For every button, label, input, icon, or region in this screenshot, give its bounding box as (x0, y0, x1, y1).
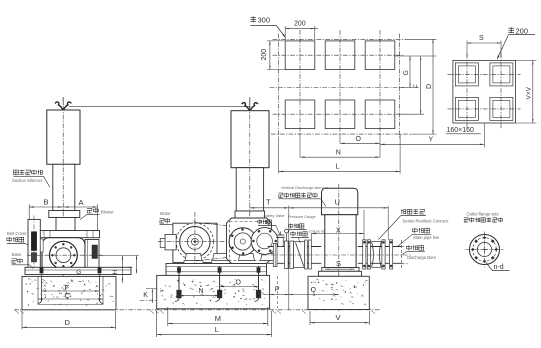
svg-text:Y: Y (429, 137, 434, 144)
svg-text:X: X (336, 225, 341, 234)
plan right extension line middle (399, 87, 413, 89)
dimension L extension lines (157, 311, 272, 337)
outlet flange bore circle (477, 242, 491, 256)
dimension line M (168, 314, 268, 324)
plan boundary bottom (dash-dot) (271, 133, 409, 135)
belt (black) (31, 232, 37, 262)
left anchor bolt 1 (38, 268, 44, 304)
dimension VxV extensions (516, 60, 537, 123)
motor stator circle (180, 227, 210, 257)
expansion joint flange A2 (367, 240, 370, 269)
small plan vertical centerlines (467, 53, 501, 129)
svg-text:M: M (215, 314, 221, 323)
plan column 2 centerline (339, 30, 341, 143)
svg-text:Belt Cover: Belt Cover (7, 231, 27, 236)
suction silencer neck (side view) (53, 164, 75, 210)
dimension line B-A (29, 206, 97, 208)
discharge silencer base (319, 271, 362, 276)
label B (44, 198, 49, 207)
svg-text:Safety Valve: Safety Valve (264, 214, 285, 218)
outlet flange centerlines (466, 232, 504, 268)
svg-text:Suction Silencer: Suction Silencer (12, 178, 43, 183)
svg-text:300: 300 (258, 16, 271, 25)
svg-text:V×V: V×V (525, 86, 532, 99)
extension line X left (310, 234, 312, 242)
svg-text:U: U (335, 197, 340, 206)
flange center mark (482, 247, 488, 253)
dimension P (264, 286, 289, 295)
svg-text:L: L (215, 325, 219, 334)
middle silencer centerline (249, 97, 251, 263)
svg-text:G: G (403, 70, 410, 75)
svg-text:S: S (336, 259, 341, 268)
label main pipe line (398, 228, 440, 247)
dimension line 200 vertical (261, 41, 270, 70)
svg-text:Base: Base (12, 252, 22, 257)
motor fan cover circle (dashed) (176, 223, 213, 260)
motor foot 1 (185, 254, 202, 261)
svg-text:200: 200 (516, 26, 529, 35)
label n-d (486, 263, 510, 272)
blower top casing (side view) (38, 218, 100, 238)
dimension line L (front view) (157, 325, 272, 335)
intake flow symbol (middle silencer) (242, 98, 258, 110)
label Suction Silencer (12, 170, 50, 187)
middle foundation block (157, 275, 270, 308)
dimension N (plan) (300, 149, 380, 158)
dimension H extension (100, 255, 140, 257)
pipe flange 3 (290, 241, 294, 269)
machines horizontal centerline (158, 241, 293, 243)
svg-text:Pressure Gauge: Pressure Gauge (288, 215, 316, 219)
plan right extension to L (399, 134, 401, 174)
motor terminal box (160, 234, 176, 250)
motor foot pads (184, 261, 231, 264)
dimension F (plan) (413, 56, 421, 114)
discharge pipe (left run) (268, 247, 322, 264)
dimension D (plan) (426, 39, 434, 134)
plan left extension to L (278, 138, 280, 174)
dimension line H (112, 256, 123, 283)
discharge silencer centerline (338, 184, 340, 311)
expansion joint flange B1 (382, 240, 385, 269)
check valve (294, 242, 305, 268)
outlet flange outer circle (470, 235, 500, 265)
right-side dimension tick (128, 256, 138, 274)
dimension line O (220, 279, 259, 287)
belt cover centerline (33, 216, 35, 272)
svg-text:S: S (479, 35, 484, 42)
svg-text:Motor: Motor (160, 211, 171, 216)
svg-text:C: C (65, 293, 70, 300)
dimension X (311, 225, 364, 234)
svg-text:Main pipe line: Main pipe line (413, 235, 440, 240)
blower left rotor bolts (231, 228, 254, 254)
pipe flange 5 (309, 240, 312, 269)
plan boundary left (dash-dot) (278, 34, 280, 139)
svg-text:F: F (413, 84, 420, 88)
dimension line D (22, 318, 116, 328)
blower horizontal centerline (side view) (27, 254, 104, 256)
dimension 200 vertical extensions (267, 41, 286, 70)
blower shaft circle (56, 248, 71, 263)
small plan horizontal centerlines (448, 74, 521, 109)
anchor pockets (6 squares) (285, 41, 395, 129)
blower bearing housing (right) (85, 240, 99, 269)
label Belt Cover (7, 231, 29, 245)
small plan outer square (453, 60, 516, 123)
dimension line 200 (285, 21, 318, 30)
small plan center extension (483, 123, 485, 148)
label outlet flange size (464, 211, 503, 222)
outlet flange bolt holes (cardinal) (471, 236, 498, 263)
dimension D extension lines (22, 311, 116, 329)
blower casing hidden lines (230, 222, 269, 261)
safety valve label (258, 214, 285, 235)
svg-text:L: L (336, 163, 340, 170)
plan boundary right (dash-dot) (398, 34, 400, 139)
middle blower inlet flange (235, 211, 265, 218)
dimension K (140, 289, 157, 303)
dimension line S (small plan) (467, 35, 501, 44)
svg-text:B: B (44, 198, 49, 207)
blower casing (front view) (227, 218, 272, 264)
label depth 200 (497, 26, 535, 59)
dimension M extension lines (168, 307, 268, 326)
base plate (side view) (25, 267, 131, 274)
right foundation block (308, 276, 369, 309)
dimension V extension lines (310, 311, 369, 325)
plan right extension line row1 (395, 55, 437, 57)
svg-text:160×160: 160×160 (447, 127, 475, 134)
motor centerline vertical (194, 212, 195, 266)
label vertical discharge silencer (278, 185, 328, 206)
extension line at discharge flange (288, 206, 290, 310)
svg-text:Series Resilient Connect: Series Resilient Connect (403, 218, 450, 223)
expansion joint flange B2 (390, 240, 393, 269)
label A (79, 198, 84, 207)
plan right extension line top (405, 38, 437, 40)
belt line top (dash-dot) (196, 223, 244, 228)
svg-text:V: V (336, 313, 341, 322)
left foundation block (22, 276, 116, 309)
plan column 3 centerline (379, 30, 381, 157)
svg-text:G: G (76, 269, 81, 276)
svg-text:O: O (236, 279, 242, 286)
pressure gauge (285, 229, 289, 243)
pipe centerline (262, 254, 411, 256)
dimension line F (42, 285, 100, 292)
svg-text:D: D (426, 84, 433, 89)
blower right rotor bolts (252, 230, 277, 252)
middle foundation speckles (160, 280, 266, 306)
hidden extension line (276, 276, 278, 308)
svg-text:Vertical Discharge silencer: Vertical Discharge silencer (281, 185, 329, 190)
ground dash-dot line (14, 309, 380, 311)
middle anchor bolt 2 (215, 266, 222, 301)
svg-text:n-d: n-d (494, 264, 504, 271)
dimension U (289, 197, 388, 208)
middle anchor bolt 3 (254, 266, 261, 301)
label Base (12, 252, 34, 269)
pulley hub (40, 239, 43, 252)
svg-text:D: D (65, 318, 71, 327)
check valve label (291, 230, 330, 243)
left anchor bolt 2 (98, 268, 104, 304)
discharge silencer bottom flange (322, 268, 359, 272)
svg-text:Discharge Bore: Discharge Bore (407, 255, 437, 260)
plan row2 centerline (273, 113, 405, 115)
label discharge bore (402, 245, 437, 260)
dimension Q (289, 287, 339, 295)
svg-text:K: K (143, 292, 148, 299)
dimension O (plan) (340, 136, 380, 144)
plan column 1 centerline (299, 30, 301, 157)
blower left rotor bolt circle (229, 228, 256, 255)
motor inner circles (187, 234, 202, 249)
svg-text:N: N (199, 288, 204, 295)
left foundation speckles (25, 278, 114, 305)
dimension line V (310, 313, 369, 323)
pressure gauge label (288, 215, 316, 229)
middle anchor bolt 1 (175, 266, 182, 301)
ground hatch marks (15, 310, 375, 313)
dimension L (plan) (279, 163, 400, 172)
expansion joint flange A1 (363, 240, 366, 269)
svg-text:F: F (65, 285, 69, 292)
centerline (left assembly) (62, 97, 64, 279)
dimension line VxV (525, 60, 533, 123)
discharge silencer body (325, 215, 356, 268)
middle suction silencer neck (236, 168, 263, 211)
blower casing (side view) (42, 238, 85, 273)
blower end plate circle (50, 241, 78, 269)
blower left rotor inner (234, 233, 251, 250)
dimension G (plan) (403, 56, 411, 88)
blower flange bolts (51, 243, 75, 267)
middle suction silencer body (231, 111, 269, 168)
blower foot 1 (239, 254, 255, 261)
plan right extension line row2 (399, 113, 424, 115)
belt line bottom (dash-dot) (196, 256, 244, 261)
svg-text:200: 200 (294, 21, 306, 28)
dimension S (small plan) extensions (467, 41, 501, 59)
suction silencer body (side view) (47, 110, 80, 164)
label Blower (80, 208, 114, 220)
motor foot 2 (213, 254, 230, 261)
blower inlet flange (side view) (49, 211, 80, 218)
pipe flange 1 (273, 244, 277, 267)
left foundation pocket (38, 276, 103, 304)
dimension S (325, 259, 355, 270)
dimension line C (38, 293, 103, 300)
safety valve (276, 232, 285, 247)
intake flow symbol (left silencer) (55, 98, 71, 110)
svg-text:H: H (112, 269, 119, 274)
svg-text:Outlet flange size: Outlet flange size (467, 211, 500, 216)
expansion joint bellows (372, 242, 382, 268)
svg-text:T: T (266, 197, 271, 206)
dimension line N (179, 288, 220, 296)
svg-text:N: N (336, 149, 341, 156)
blower right rotor circle (251, 228, 278, 255)
label 160x160 (446, 127, 481, 134)
pipe flange 2 (284, 241, 288, 269)
discharge silencer top cap (322, 188, 358, 214)
plan row1 centerline (273, 54, 405, 56)
height reference line between silencer tops (69, 106, 250, 110)
outlet flange bolt circle (473, 238, 497, 262)
label depth 300 (250, 16, 286, 39)
svg-text:Q: Q (311, 287, 317, 294)
motor label (160, 211, 182, 233)
dimension B-A extension lines (29, 204, 97, 230)
extension line X right (363, 210, 365, 240)
svg-text:A: A (79, 198, 84, 207)
label series resilient connect (379, 209, 450, 240)
middle base plate (166, 264, 267, 276)
svg-text:Blower: Blower (101, 210, 114, 215)
belt cover (side view) (28, 219, 40, 268)
dimension Y (380, 137, 484, 146)
discharge pipe (right run) (358, 247, 402, 264)
dimension 200 extensions (285, 26, 315, 40)
outlet flange bolt holes (diagonal) (474, 239, 494, 259)
pipe flange 4 (305, 240, 308, 269)
small plan pockets (4 nested squares) (455, 63, 513, 121)
motor body (173, 223, 217, 262)
dimension T (250, 197, 289, 208)
svg-text:200: 200 (261, 49, 268, 61)
plan right extension line bottom (409, 133, 437, 135)
svg-text:O: O (356, 136, 362, 143)
label G (base) (76, 269, 81, 276)
right foundation speckles (311, 279, 368, 305)
plan middle centerline (270, 87, 405, 89)
extension line main pipe start (387, 206, 389, 240)
main pipe break (dashed) (401, 240, 407, 270)
plan boundary top (dash-dot) (273, 38, 405, 40)
blower foot 2 (261, 254, 277, 261)
